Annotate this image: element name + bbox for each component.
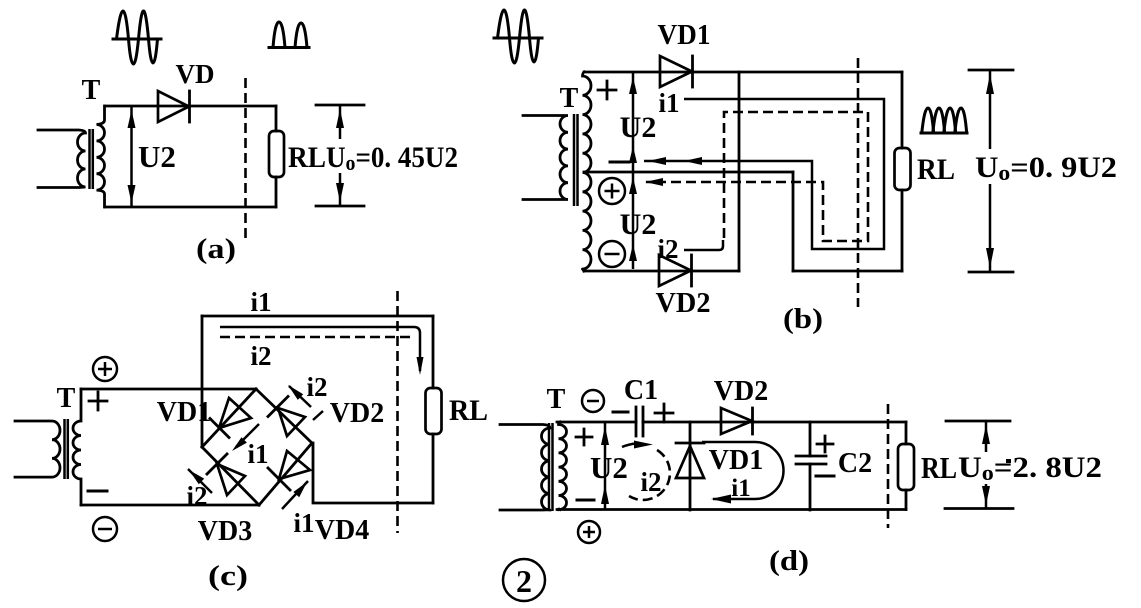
plus sign upper winding (b) xyxy=(598,81,616,99)
diode VD1 (b) xyxy=(660,56,693,87)
circled minus node (c) xyxy=(93,517,117,541)
current path i2 solid stub (b) xyxy=(684,240,723,250)
minus sign U2 (d) xyxy=(577,499,594,502)
dimension arrow Uo (d) xyxy=(945,421,1013,509)
dimension arrow Uo (a) xyxy=(316,105,364,206)
transformer T (b) core xyxy=(574,114,578,206)
plus sign (c) xyxy=(89,392,107,410)
wire transformer top to bridge (c) xyxy=(81,388,256,391)
arrowhead i1 left second (b) xyxy=(684,157,702,165)
minus sign upper winding (b) xyxy=(610,161,629,164)
svg-text:VD1: VD1 xyxy=(157,397,211,428)
current path i1 top (c) xyxy=(220,327,420,371)
dashed divider (a) xyxy=(244,78,247,238)
svg-text:C1: C1 xyxy=(624,375,658,406)
transformer T (a) secondary winding xyxy=(97,106,105,207)
circled plus node (c) xyxy=(93,357,117,381)
current arrow i2 lower left (c) xyxy=(188,469,212,493)
arrowhead i1 left (b) xyxy=(648,157,666,165)
svg-text:VD2: VD2 xyxy=(714,376,768,407)
diode VD (a) xyxy=(158,91,190,122)
wire top with C1 gap (d) xyxy=(557,421,906,424)
dashed divider (b) xyxy=(857,58,860,307)
wire bottom (d) xyxy=(557,508,906,511)
diode VD3 (c) xyxy=(207,454,245,495)
U2 measure arrow lower (b) xyxy=(629,172,637,269)
capacitor C2 branch wire (d) xyxy=(809,422,812,510)
transformer T (d) core xyxy=(549,423,553,511)
svg-text:T: T xyxy=(547,384,566,415)
U2 measure arrow (d) xyxy=(601,422,609,509)
transformer T (d) secondary winding xyxy=(559,422,567,510)
wire top (a) xyxy=(105,105,276,108)
current arrow i1 inside bridge (c) xyxy=(232,424,259,451)
svg-text:RL: RL xyxy=(921,450,957,485)
output ripple waveform symbol (b) xyxy=(921,108,967,133)
bridge edge T-R (c) xyxy=(256,389,312,443)
wire bottom (a) xyxy=(105,206,276,209)
output half-wave waveform symbol (a) xyxy=(269,22,309,48)
dimension arrow Uo (b) xyxy=(969,70,1013,272)
dashed divider (d) xyxy=(887,404,890,528)
capacitor C1 (d) xyxy=(636,407,643,436)
circled minus node (b) xyxy=(599,241,625,267)
bridge edge B-R (c) xyxy=(259,443,312,505)
diode VD1 vertical (d) xyxy=(676,422,704,510)
svg-text:(d): (d) xyxy=(769,546,809,577)
diode VD2 (b) xyxy=(659,255,692,286)
svg-text:Uo=0. 9U2: Uo=0. 9U2 xyxy=(975,151,1117,185)
svg-text:VD3: VD3 xyxy=(198,516,252,547)
wire left vertical (c) xyxy=(201,316,204,447)
diode VD4 (c) xyxy=(268,451,310,490)
resistor RL (a) xyxy=(269,131,284,177)
svg-text:(c): (c) xyxy=(208,561,248,592)
transformer T (b) secondary winding with center tap xyxy=(583,72,592,271)
svg-text:T: T xyxy=(82,75,101,106)
svg-text:2: 2 xyxy=(516,563,532,599)
svg-text:i2: i2 xyxy=(640,467,661,497)
svg-text:VD: VD xyxy=(176,59,215,89)
svg-text:i1: i1 xyxy=(293,508,314,538)
current loop i2 dashed (d) xyxy=(629,450,670,500)
wire right branch with RL (c) xyxy=(432,316,435,503)
transformer T (c) core xyxy=(65,419,68,479)
minus sign C2 (d) xyxy=(816,475,834,478)
diode VD1 (c) xyxy=(210,398,251,438)
svg-text:i2: i2 xyxy=(306,372,327,402)
transformer T (c) primary winding xyxy=(15,421,60,477)
annotation stub near VD2 (c) xyxy=(313,411,323,420)
svg-text:T: T xyxy=(57,383,76,414)
svg-text:i2: i2 xyxy=(657,234,678,264)
bridge edge L-B (c) xyxy=(202,447,259,505)
circled plus node bottom (d) xyxy=(578,521,600,543)
svg-text:(a): (a) xyxy=(196,234,236,265)
transformer T (b) primary winding xyxy=(523,116,568,200)
transformer T (d) primary winding xyxy=(500,425,550,511)
wire transformer bottom to bridge (c) xyxy=(81,504,259,507)
svg-text:i1: i1 xyxy=(247,439,268,469)
bridge edge T-L (c) xyxy=(202,389,256,447)
input sine waveform symbol (b) xyxy=(494,10,542,63)
dot of approx equals (d) xyxy=(1006,459,1011,463)
resistor RL (c) xyxy=(426,388,442,434)
svg-text:VD1: VD1 xyxy=(709,445,763,476)
circled minus node top (d) xyxy=(582,390,604,412)
current path i1 (b) xyxy=(644,99,884,249)
wire right branch with RL (b) xyxy=(901,72,904,271)
minus sign (c) xyxy=(88,490,107,493)
dashed divider (c) xyxy=(396,291,399,533)
wire load branch (a) xyxy=(275,106,278,207)
svg-text:i1: i1 xyxy=(731,475,750,502)
transformer T (a) core xyxy=(90,129,93,189)
arrowhead i2 left (b) xyxy=(645,178,663,186)
transformer T (c) secondary winding xyxy=(73,389,81,505)
minus sign C1 (d) xyxy=(613,411,628,414)
wire center tap (b) xyxy=(584,171,793,174)
current arrow i1 lower right (c) xyxy=(282,481,308,509)
current path i2 top dashed (c) xyxy=(220,336,410,339)
plus sign C2 (d) xyxy=(817,436,833,452)
current arrow i2 upper right (c) xyxy=(288,385,311,407)
current path i2 dashed (b) xyxy=(646,112,868,241)
svg-text:RL: RL xyxy=(917,153,955,186)
resistor RL (d) xyxy=(898,444,914,490)
svg-text:U2: U2 xyxy=(620,111,657,144)
svg-text:RL: RL xyxy=(449,394,488,427)
resistor RL (b) xyxy=(895,148,911,190)
U2 measure arrow (a) xyxy=(128,106,136,207)
svg-text:i2: i2 xyxy=(250,341,271,371)
current loop i1 arrow (d) xyxy=(711,495,731,504)
svg-text:Uo=2. 8U2: Uo=2. 8U2 xyxy=(958,451,1102,485)
wire return vertical (b) xyxy=(792,172,795,271)
wire cathode junction vertical (b) xyxy=(738,72,741,271)
svg-text:C2: C2 xyxy=(838,448,872,479)
svg-text:i1: i1 xyxy=(658,88,679,118)
wire right branch with RL (d) xyxy=(905,422,908,510)
arrowhead i1 down (c) xyxy=(417,357,424,375)
wire top (b) xyxy=(584,71,902,74)
transformer T (a) primary winding xyxy=(38,130,86,188)
current loop i2 arrow (d) xyxy=(622,441,653,449)
U2 measure arrow upper (b) xyxy=(629,72,637,172)
figure number circled 2 xyxy=(503,559,545,601)
svg-text:i2: i2 xyxy=(186,481,207,511)
svg-text:i1: i1 xyxy=(250,287,271,317)
plus sign C1 (d) xyxy=(655,404,673,422)
svg-text:VD2: VD2 xyxy=(656,287,711,319)
input sine waveform symbol (a) xyxy=(113,11,161,64)
svg-text:U2: U2 xyxy=(138,139,176,174)
diode VD2 (c) xyxy=(268,397,305,437)
wire top (c) xyxy=(202,315,433,318)
wire bottom right (c) xyxy=(313,443,433,503)
svg-text:VD2: VD2 xyxy=(330,398,384,429)
current loop i1 solid (d) xyxy=(702,442,784,499)
wire bottom right (b) xyxy=(793,270,902,273)
svg-text:VD1: VD1 xyxy=(658,19,711,51)
plus sign U2 (d) xyxy=(576,429,592,445)
svg-text:U2: U2 xyxy=(620,208,657,241)
diode VD2 (d) xyxy=(721,408,753,434)
svg-text:RL: RL xyxy=(288,141,326,174)
svg-text:VD4: VD4 xyxy=(315,515,369,546)
svg-text:U2: U2 xyxy=(590,450,628,485)
svg-text:T: T xyxy=(560,83,579,114)
capacitor C2 plates (d) xyxy=(796,456,826,464)
wire bottom left (b) xyxy=(584,270,739,273)
svg-text:(b): (b) xyxy=(783,304,823,335)
circled plus node (b) xyxy=(599,178,625,204)
